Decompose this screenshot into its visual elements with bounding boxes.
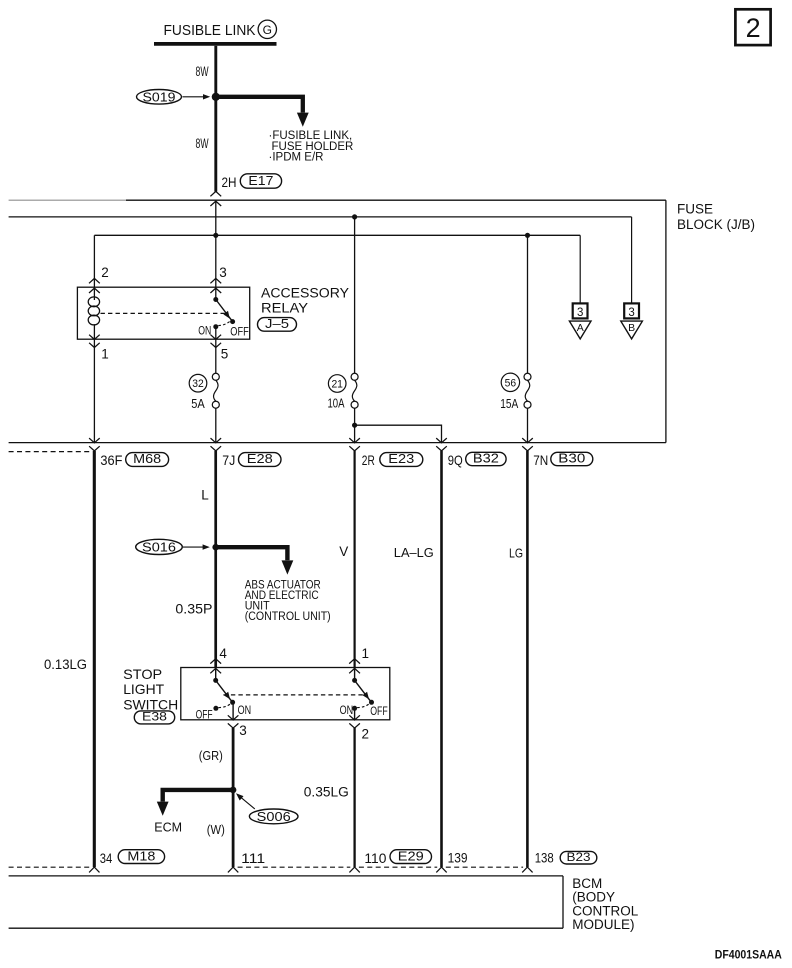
fuse 56 (524, 373, 531, 408)
connector label E38 (134, 710, 174, 724)
wire stub to terminal 3B (631, 217, 633, 304)
relay mechanical link (dashed) (101, 312, 227, 314)
exit chevrons at fuse block bottom x=94.4 (89, 438, 100, 451)
splice S016 (136, 539, 210, 554)
junction on upper bus at x=355 (352, 214, 357, 219)
exit chevrons at fuse block bottom x=527.5 (522, 438, 533, 451)
BCM box bottom border (9, 927, 563, 929)
label FUSE BLOCK (J/B) (677, 201, 755, 232)
svg-text:(GR): (GR) (199, 748, 223, 763)
terminal 2H connector E17 (222, 174, 282, 190)
label FUSIBLE LINK with circle G (164, 20, 277, 39)
fuse block top border (126, 199, 666, 201)
svg-text:FUSIBLE LINK: FUSIBLE LINK (164, 22, 256, 39)
relay coil (88, 287, 99, 339)
svg-text:B: B (628, 322, 635, 334)
wire fuse 56 to 7N (527, 408, 529, 442)
label ACCESSORY RELAY (261, 286, 349, 316)
terminal box 3 (A) (573, 303, 588, 318)
svg-text:DF4001SAAA: DF4001SAAA (715, 950, 782, 962)
svg-text:RELAY: RELAY (261, 301, 308, 316)
terminal 34 connector M18 (100, 849, 165, 866)
wire LA-LG: 9Q down to 139 (440, 451, 443, 867)
svg-text:7J: 7J (222, 452, 235, 468)
svg-text:LA–LG: LA–LG (394, 545, 434, 560)
svg-text:10A: 10A (328, 396, 345, 411)
thick branch wire to ECM (157, 790, 233, 816)
svg-text:(CONTROL UNIT): (CONTROL UNIT) (245, 611, 331, 623)
svg-text:ON: ON (238, 703, 252, 717)
svg-text:E17: E17 (248, 174, 273, 188)
svg-text:M18: M18 (127, 849, 155, 863)
svg-text:0.13LG: 0.13LG (44, 657, 87, 672)
relay label OFF (230, 325, 249, 339)
svg-text:LG: LG (509, 545, 523, 560)
svg-text:4: 4 (219, 646, 227, 661)
dashed connector line segments above BCM (9, 866, 524, 868)
wire lower bus down to relay coil (pin 2) (93, 235, 95, 287)
svg-text:2: 2 (101, 265, 109, 280)
pin label 2 (362, 727, 370, 742)
wire L: 7J down to stop light switch pin 4 (214, 451, 217, 668)
splice S019 (137, 90, 211, 105)
branch wire to 9Q (355, 425, 442, 442)
terminal 9Q connector B32 (448, 452, 506, 468)
chevrons entering fuse block at x=216 (210, 191, 221, 206)
svg-text:139: 139 (448, 850, 468, 866)
svg-text:2H: 2H (222, 175, 237, 190)
thick branch wire to ABS actuator (216, 547, 294, 574)
junction on lower bus at x=527 (525, 233, 530, 238)
svg-text:V: V (339, 544, 348, 559)
pin label 1 (362, 646, 370, 661)
connector label J-5 (258, 317, 297, 331)
svg-text:5: 5 (221, 346, 229, 361)
switch mechanical link (dashed) (223, 694, 363, 696)
svg-text:1: 1 (101, 346, 109, 361)
dashed continuation line left of 36F (9, 451, 91, 453)
label ON (right switch) (340, 703, 354, 717)
svg-text:3: 3 (239, 723, 247, 738)
wire (GR): pin 3 down to splice S006 (232, 728, 235, 867)
label OFF (left switch) (196, 707, 213, 721)
label STOP LIGHT SWITCH (123, 666, 178, 713)
svg-text:B32: B32 (473, 452, 499, 466)
svg-text:ECM: ECM (154, 821, 182, 835)
pin label 5 (221, 346, 229, 361)
svg-text:ON: ON (340, 703, 354, 717)
svg-text:1: 1 (362, 646, 370, 661)
fork entering BCM at x=527.4 (522, 867, 532, 872)
svg-text:ON: ON (198, 323, 211, 337)
triangle A (569, 321, 591, 339)
right switch ON contact and dashed throw (352, 703, 370, 720)
fuse number 56 (501, 373, 519, 391)
wire 8W upper segment (214, 46, 217, 97)
wire 0.13LG: 36F down to 34 (thick) (93, 451, 96, 867)
drawing number DF4001SAAA (715, 950, 782, 962)
junction at S016 (212, 544, 219, 551)
svg-text:110: 110 (364, 850, 386, 866)
triangle B (621, 321, 643, 339)
svg-text:MODULE): MODULE) (572, 917, 634, 932)
fuse number 32 (189, 374, 207, 392)
label BCM (BODY CONTROL MODULE) (572, 876, 638, 932)
stop light switch entry chevrons pin 1 (349, 659, 360, 674)
wire 110 segment below switch (353, 728, 355, 867)
color label LG (509, 545, 523, 560)
stop light switch box E38 (181, 668, 390, 720)
svg-text:138: 138 (535, 850, 554, 866)
relay label ON (198, 323, 211, 337)
svg-text:ACCESSORY: ACCESSORY (261, 286, 349, 301)
svg-text:E28: E28 (247, 452, 273, 466)
svg-text:(W): (W) (207, 822, 225, 837)
terminal 36F connector M68 (100, 452, 168, 468)
svg-text:STOP: STOP (123, 666, 162, 682)
fork entering BCM at x=354.6 (349, 867, 359, 872)
color label (GR) (199, 748, 223, 763)
left switch OFF contact and dashed throw (213, 703, 231, 711)
label ECM (154, 821, 182, 835)
junction below fuse 21 (352, 423, 357, 428)
terminal 7N connector B30 (533, 452, 593, 468)
svg-text:2: 2 (746, 13, 761, 43)
svg-text:M68: M68 (133, 452, 161, 466)
exit chevrons at fuse block bottom x=354.6 (349, 438, 360, 451)
svg-text:0.35LG: 0.35LG (304, 784, 349, 799)
svg-text:21: 21 (331, 379, 343, 391)
terminal 138 connector B23 (535, 850, 597, 866)
svg-text:15A: 15A (500, 396, 518, 411)
svg-text:B30: B30 (558, 452, 585, 466)
wire 8W lower segment (214, 97, 217, 192)
wire V: 2R down to stop light switch pin 1 (354, 451, 356, 668)
color label LA-LG (394, 545, 434, 560)
bus wire inside fuse block (lower) (94, 234, 580, 236)
relay pin 1 exit chevrons (89, 335, 100, 348)
pin label 4 (219, 646, 227, 661)
terminal 7J connector E28 (222, 452, 281, 468)
terminal 111 (241, 850, 265, 866)
svg-text:2R: 2R (362, 452, 375, 468)
wire fuse 21 to 2R (354, 408, 356, 442)
bus wire inside fuse block (upper) (9, 216, 632, 218)
thick branch wire to fusible link / fuse holder / IPDM (216, 97, 309, 127)
fuse number 21 (328, 375, 346, 393)
svg-text:S019: S019 (143, 90, 176, 104)
wire relay pin1 down to fuse block bottom (93, 339, 95, 442)
BCM box top border (9, 875, 563, 877)
terminal box 3 (B) (624, 303, 639, 318)
svg-text:LIGHT: LIGHT (123, 681, 164, 697)
label ON (left switch) (238, 703, 252, 717)
svg-text:3: 3 (628, 307, 634, 319)
svg-text:G: G (263, 23, 272, 37)
wire upper bus down through fuse 21 (354, 217, 356, 373)
pin label 2 (101, 265, 109, 280)
fuse block top border (gray left segment) (9, 199, 126, 201)
svg-text:S016: S016 (142, 540, 176, 554)
wire fuse 32 to 7J (215, 408, 217, 442)
value label 0.13LG (44, 657, 87, 672)
svg-text:OFF: OFF (370, 704, 388, 718)
stop light switch entry chevrons pin 4 (210, 659, 221, 674)
label ABS ACTUATOR AND ELECTRIC UNIT (CONTROL UNIT) (245, 580, 331, 624)
svg-text:32: 32 (192, 378, 204, 390)
terminal 110 connector E29 (364, 849, 431, 866)
left switch arm (pin 4 to pin 3) (213, 668, 235, 705)
relay ON contact and dashed throw (213, 321, 231, 340)
value label 0.35P (175, 602, 212, 617)
fusible link bus bar (154, 42, 277, 46)
color label V (339, 544, 348, 559)
wire LG: 7N down to 138 (526, 451, 529, 867)
svg-text:BLOCK (J/B): BLOCK (J/B) (677, 217, 755, 232)
pin label 1 (101, 346, 109, 361)
exit chevrons pin 3 (228, 715, 239, 728)
svg-text:2: 2 (362, 727, 370, 742)
svg-text:E23: E23 (388, 452, 414, 466)
accessory relay pin 3 entry chevrons (210, 278, 221, 293)
svg-text:56: 56 (505, 377, 517, 389)
svg-text:36F: 36F (100, 452, 122, 468)
wire from E17 entry down to lower bus (215, 201, 217, 287)
fork entering BCM at x=94.3 (89, 867, 99, 872)
svg-text:0.35P: 0.35P (175, 602, 212, 617)
sheet number box 2 (735, 9, 770, 45)
fuse 32 (212, 373, 219, 408)
svg-text:L: L (201, 488, 209, 503)
junction node at S019 (212, 93, 220, 101)
color label L (201, 488, 209, 503)
svg-text:111: 111 (241, 850, 265, 866)
accessory relay pin 2 entry chevrons (89, 278, 100, 293)
terminal 139 (448, 850, 468, 866)
terminal 2R connector E23 (362, 452, 423, 468)
svg-text:8W: 8W (196, 63, 209, 79)
fork entering BCM at x=233.1 (228, 867, 238, 872)
fuse 21 (351, 373, 358, 408)
pin label 3 (219, 265, 227, 280)
fuse block bottom border (9, 442, 666, 444)
svg-text:OFF: OFF (196, 707, 213, 721)
fuse rating 10A (328, 396, 345, 411)
BCM box right border (562, 876, 564, 928)
branch destination label (269, 130, 354, 164)
fuse block right border (665, 200, 667, 442)
accessory relay J-5 box (77, 287, 249, 339)
svg-text:E29: E29 (398, 849, 424, 863)
pin label 3 (239, 723, 247, 738)
svg-text:J–5: J–5 (265, 317, 289, 331)
svg-text:3: 3 (577, 307, 583, 319)
value label 8W (upper) (196, 63, 209, 79)
svg-text:3: 3 (219, 265, 227, 280)
value label 0.35LG (304, 784, 349, 799)
fuse rating 15A (500, 396, 518, 411)
label OFF (right switch) (370, 704, 388, 718)
svg-text:FUSE: FUSE (677, 201, 713, 216)
svg-text:34: 34 (100, 850, 113, 866)
junction at S006 (230, 787, 237, 794)
wire left arm down to pin 3 (232, 702, 234, 720)
svg-text:5A: 5A (191, 396, 205, 411)
svg-text:7N: 7N (533, 452, 548, 468)
fork entering BCM at x=441.5 (436, 867, 446, 872)
wire relay pin5 down to fuse 32 (215, 339, 217, 373)
svg-text:9Q: 9Q (448, 452, 463, 468)
relay switch arm (213, 287, 235, 324)
svg-text:8W: 8W (196, 135, 209, 151)
exit chevrons at fuse block bottom x=441.5 (436, 438, 447, 451)
svg-text:E38: E38 (142, 710, 167, 724)
svg-text:S006: S006 (257, 810, 291, 824)
svg-text:·IPDM E/R: ·IPDM E/R (269, 152, 324, 164)
splice S006 (236, 793, 298, 824)
relay pin 5 exit chevrons (211, 335, 222, 348)
svg-text:A: A (577, 322, 584, 334)
fuse rating 5A (191, 396, 205, 411)
junction on lower bus at x=216 (213, 233, 218, 238)
exit chevrons at fuse block bottom x=215.8 (211, 438, 222, 451)
svg-text:B23: B23 (567, 850, 591, 864)
exit chevrons pin 2 (349, 715, 360, 728)
right switch arm (pin 1 to pin 2) (352, 668, 374, 705)
color label (W) (207, 822, 225, 837)
wire stub to terminal 3A (579, 235, 581, 303)
wire lower bus down through fuse 56 (527, 235, 529, 373)
svg-text:OFF: OFF (230, 325, 249, 339)
value label 8W (lower) (196, 135, 209, 151)
